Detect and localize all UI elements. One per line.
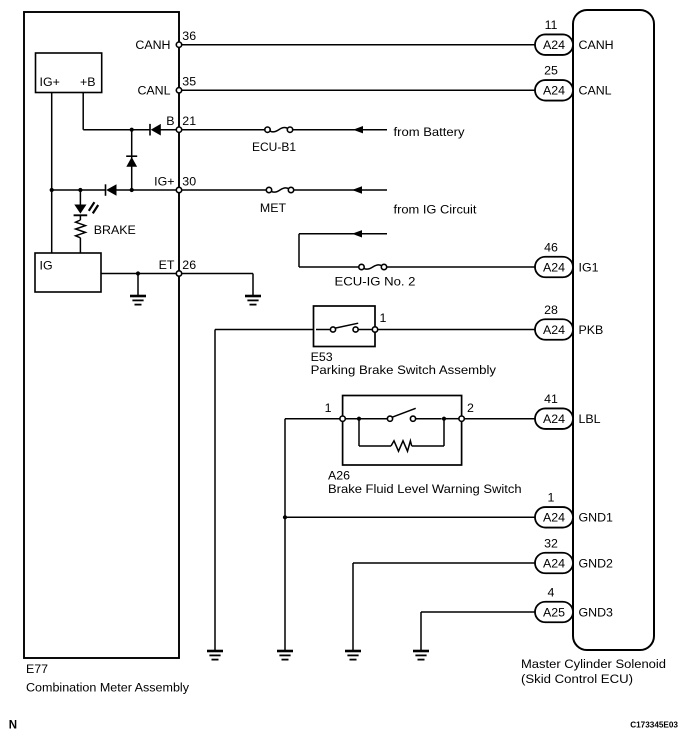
- label C173345E03 (figure id): [630, 721, 678, 730]
- svg-text:BRAKE: BRAKE: [94, 223, 136, 237]
- svg-text:A24: A24: [543, 511, 565, 525]
- wire A26 to LBL: [464, 418, 535, 420]
- fuse ECU-B1: [265, 127, 293, 132]
- node junction vertical/IG+: [130, 188, 134, 192]
- pin 1 terminal (E53): [372, 327, 377, 332]
- brake fluid level switch box A26: [343, 396, 462, 466]
- pin terminal circle (meter, y=190): [176, 187, 181, 192]
- wire GND1: [285, 516, 535, 518]
- wire fuse MET to arrow: [294, 189, 387, 191]
- label B (meter pin): [166, 114, 174, 128]
- label GND2 (ECU pin): [579, 556, 614, 570]
- svg-text:Combination Meter Assembly: Combination Meter Assembly: [26, 680, 190, 694]
- node junction IG+ left: [50, 188, 54, 192]
- svg-text:B: B: [166, 114, 174, 128]
- ground (brake fluid switch): [277, 651, 293, 660]
- wire E53 to PKB: [378, 329, 535, 331]
- label Brake Fluid Level Warning Switch: [328, 482, 522, 496]
- fuse ECU-IG No. 2: [359, 264, 387, 269]
- svg-text:A24: A24: [543, 412, 565, 426]
- pin 1 number label: [548, 491, 555, 505]
- svg-text:IG+: IG+: [154, 174, 174, 188]
- diode D3 (IG+ line): [106, 184, 117, 196]
- wire B-line node to diode: [132, 129, 150, 131]
- diode D1 (B line): [150, 124, 179, 136]
- pin 21 label: [182, 114, 196, 128]
- pin 2 terminal (A26): [459, 416, 464, 421]
- svg-text:C173345E03: C173345E03: [630, 721, 678, 730]
- svg-text:11: 11: [545, 18, 558, 32]
- label ET (meter pin): [159, 258, 175, 272]
- svg-text:from IG Circuit: from IG Circuit: [394, 203, 478, 217]
- pin 28 number label: [544, 303, 558, 317]
- pin 25 number label: [544, 64, 558, 78]
- svg-text:ECU-IG No. 2: ECU-IG No. 2: [335, 275, 416, 289]
- label CANH (meter pin): [135, 38, 170, 52]
- label LBL (ECU pin): [579, 412, 601, 426]
- node junction ET ground: [136, 271, 140, 275]
- svg-text:CANH: CANH: [135, 38, 170, 52]
- svg-text:1: 1: [380, 311, 387, 325]
- svg-text:36: 36: [182, 29, 196, 43]
- label ECU-B1: [252, 140, 296, 154]
- svg-text:PKB: PKB: [579, 323, 604, 337]
- svg-text:46: 46: [544, 240, 558, 254]
- wire ET line: [101, 273, 179, 275]
- label pin 1 (A26): [325, 401, 332, 415]
- label GND3 (ECU pin): [579, 605, 614, 619]
- pin 1 terminal (A26): [340, 416, 345, 421]
- switch SW1 contacts: [316, 323, 372, 332]
- pin 46 number label: [544, 240, 558, 254]
- wire to brake fluid switch: [285, 418, 343, 420]
- label E77: [26, 662, 48, 676]
- svg-text:1: 1: [548, 491, 555, 505]
- wire ECU-IG corner: [299, 234, 359, 267]
- svg-text:A24: A24: [543, 260, 565, 274]
- combination meter assembly box E77: [24, 12, 179, 658]
- label IG+ (meter pin): [154, 174, 174, 188]
- svg-text:28: 28: [544, 303, 558, 317]
- label GND1 (ECU pin): [579, 511, 614, 525]
- svg-text:41: 41: [544, 392, 558, 406]
- wire +B to node B21: [83, 93, 132, 130]
- arrow from IG Circuit: [352, 186, 362, 193]
- svg-text:32: 32: [544, 536, 558, 550]
- node junction resistor right: [442, 417, 446, 421]
- internal power block IG+/+B: [36, 53, 102, 93]
- connector A24 (CANH): [535, 34, 573, 55]
- wire IG circuit arrow segment: [299, 233, 387, 235]
- svg-text:A24: A24: [543, 323, 565, 337]
- svg-text:IG+: IG+: [40, 75, 60, 89]
- label +B (power block): [80, 75, 96, 89]
- wire fuse to battery arrow: [293, 129, 387, 131]
- label pin 2 (A26): [467, 401, 474, 415]
- ground (parking brake switch): [207, 651, 223, 660]
- svg-text:1: 1: [325, 401, 332, 415]
- LED light arrows: [89, 202, 98, 213]
- connector A24 (GND1): [535, 507, 573, 528]
- wire LED branch down: [79, 190, 81, 205]
- svg-text:GND2: GND2: [579, 556, 614, 570]
- svg-text:GND1: GND1: [579, 511, 614, 525]
- svg-text:35: 35: [182, 75, 196, 89]
- svg-text:CANH: CANH: [579, 38, 614, 52]
- pin terminal circle (meter, y=90.3): [176, 88, 181, 93]
- svg-text:ECU-B1: ECU-B1: [252, 140, 296, 154]
- svg-text:4: 4: [548, 585, 555, 599]
- pin terminal circle (meter, y=44.7): [176, 42, 181, 47]
- svg-text:2: 2: [467, 401, 474, 415]
- wire fuse to IG1: [387, 266, 535, 268]
- svg-text:(Skid Control ECU): (Skid Control ECU): [521, 672, 633, 686]
- node junction GND1: [283, 515, 287, 519]
- label Master Cylinder Solenoid: [521, 657, 666, 671]
- wire to parking brake switch: [215, 329, 314, 331]
- svg-text:+B: +B: [80, 75, 96, 89]
- pin terminal circle (meter, y=129.7): [176, 127, 181, 132]
- label N (page marker): [9, 719, 17, 731]
- resistor R1 (BRAKE lamp): [76, 220, 86, 253]
- pin 35 label: [182, 75, 196, 89]
- connector A24 (LBL): [535, 408, 573, 429]
- pin 4 number label: [548, 585, 555, 599]
- arrow from Battery: [353, 126, 363, 133]
- svg-text:CANL: CANL: [579, 84, 612, 98]
- wire CANH: [182, 44, 535, 46]
- svg-text:A24: A24: [543, 556, 565, 570]
- LED BRAKE indicator: [74, 205, 88, 221]
- pin 41 number label: [544, 392, 558, 406]
- label Combination Meter Assembly: [26, 680, 190, 694]
- wire ET ground drop: [137, 274, 139, 297]
- svg-text:E53: E53: [311, 350, 333, 364]
- svg-text:21: 21: [182, 114, 196, 128]
- label CANL (meter pin): [137, 84, 170, 98]
- wire GND2: [353, 563, 535, 651]
- pin 36 label: [182, 29, 196, 43]
- svg-text:GND3: GND3: [579, 605, 614, 619]
- resistor R2 (fluid level): [391, 441, 412, 451]
- wire GND3: [421, 612, 535, 651]
- svg-text:IG: IG: [40, 259, 53, 273]
- wire PKB ground drop: [214, 330, 216, 652]
- wire resistor branch: [359, 419, 444, 446]
- svg-text:A24: A24: [543, 84, 565, 98]
- svg-text:26: 26: [182, 258, 196, 272]
- svg-text:N: N: [9, 719, 17, 731]
- label IG (ignition block): [40, 259, 53, 273]
- connector A25 (GND3): [535, 602, 573, 623]
- svg-text:from Battery: from Battery: [394, 125, 466, 139]
- fuse MET: [266, 187, 293, 192]
- pin 11 number label: [545, 18, 558, 32]
- label IG1 (ECU pin): [579, 260, 599, 274]
- label from IG Circuit: [394, 203, 478, 217]
- label (Skid Control ECU): [521, 672, 633, 686]
- wire IG+ vertical from power block: [51, 93, 53, 253]
- wire ET to external ground: [182, 274, 253, 297]
- pin 30 label: [182, 174, 196, 188]
- label IG+ (power block): [40, 75, 60, 89]
- node junction LED branch: [78, 188, 82, 192]
- node junction resistor left: [357, 417, 361, 421]
- svg-text:Brake Fluid Level Warning Swit: Brake Fluid Level Warning Switch: [328, 482, 522, 496]
- svg-text:25: 25: [544, 64, 558, 78]
- connector A24 (GND2): [535, 553, 573, 574]
- svg-text:E77: E77: [26, 662, 48, 676]
- label Parking Brake Switch Assembly: [311, 363, 497, 377]
- label pin 1 (E53): [380, 311, 387, 325]
- wire LBL ground drop: [284, 419, 286, 651]
- svg-text:IG1: IG1: [579, 260, 599, 274]
- svg-text:CANL: CANL: [137, 84, 170, 98]
- ground (ET external): [245, 296, 261, 305]
- label MET: [260, 201, 287, 215]
- diode D2 (vertical, zener to B): [126, 156, 137, 167]
- svg-text:Parking Brake Switch Assembly: Parking Brake Switch Assembly: [311, 363, 497, 377]
- ground (GND2): [345, 651, 361, 660]
- svg-text:LBL: LBL: [579, 412, 601, 426]
- node junction +B/diode line: [130, 128, 134, 132]
- wire CANL: [182, 89, 535, 91]
- connector A24 (IG1): [535, 257, 573, 278]
- svg-text:ET: ET: [159, 258, 175, 272]
- label E53: [311, 350, 333, 364]
- svg-text:Master Cylinder Solenoid: Master Cylinder Solenoid: [521, 657, 666, 671]
- label PKB (ECU pin): [579, 323, 604, 337]
- label from Battery: [394, 125, 466, 139]
- label CANH (ECU pin): [579, 38, 614, 52]
- svg-text:30: 30: [182, 174, 196, 188]
- connector A24 (CANL): [535, 80, 573, 101]
- label CANL (ECU pin): [579, 84, 612, 98]
- ground (meter internal): [130, 296, 146, 305]
- connector A24 (PKB): [535, 319, 573, 340]
- arrow into ECU-IG: [352, 230, 362, 237]
- svg-text:A25: A25: [543, 605, 565, 619]
- label ECU-IG No. 2: [335, 275, 416, 289]
- svg-text:A26: A26: [328, 469, 350, 483]
- wire IG+ line: [52, 189, 179, 191]
- label BRAKE: [94, 223, 136, 237]
- switch SW2 contacts: [345, 408, 459, 421]
- svg-text:MET: MET: [260, 201, 287, 215]
- ground (GND3): [413, 651, 429, 660]
- skid control ECU box: [573, 10, 654, 650]
- wire B21 to fuse ECU-B1: [182, 129, 265, 131]
- label A26: [328, 469, 350, 483]
- ignition block IG: [35, 253, 101, 292]
- wire vertical B21 to IG+ node: [131, 130, 133, 190]
- parking brake switch box E53: [314, 306, 376, 347]
- pin 26 label: [182, 258, 196, 272]
- wire IG+ to fuse MET: [182, 189, 267, 191]
- pin 32 number label: [544, 536, 558, 550]
- pin terminal circle (meter, y=273.5): [176, 271, 181, 276]
- svg-text:A24: A24: [543, 38, 565, 52]
